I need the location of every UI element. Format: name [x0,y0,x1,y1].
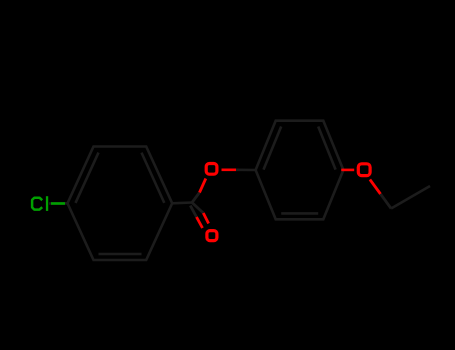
benzene ring 2 (phenylene) [256,121,344,220]
ester O to ring2 bond: carbon half [236,169,256,172]
bond ring2-ethoxy O: oxygen half (red) [341,169,354,172]
C=O double bond line 2 oxygen half (red) [197,217,203,228]
ethoxy O-CH2 bond: carbon half [381,194,392,209]
benzene ring 1 (chlorophenyl) [68,147,173,261]
carbonyl C to ester O bond: oxygen half (red) [200,179,206,193]
C=O double bond line 1 carbon half [192,203,203,214]
C=O double bond line 1 oxygen half (red) [203,213,208,224]
ethoxy O label [358,164,370,176]
CH2-CH3 bond [391,186,430,209]
Cl label: l glyph [46,196,48,211]
carbonyl O label [207,231,217,241]
ethoxy O-CH2 bond: oxygen half (red) [370,180,381,195]
bond ring-C carbonyl [172,201,192,204]
Cl label: C glyph [32,198,42,210]
bond Cl-ring (carbon half) [49,202,68,205]
carbonyl C to ester O bond: carbon half [192,193,200,203]
ester O to ring2 bond: oxygen half (red) [222,169,237,172]
bond Cl-ring: chlorine half (green) [51,202,65,205]
ester O label [206,164,217,175]
C=O double bond line 2 carbon half [190,206,196,217]
bond ring2-ethoxy O: carbon half [341,169,343,172]
